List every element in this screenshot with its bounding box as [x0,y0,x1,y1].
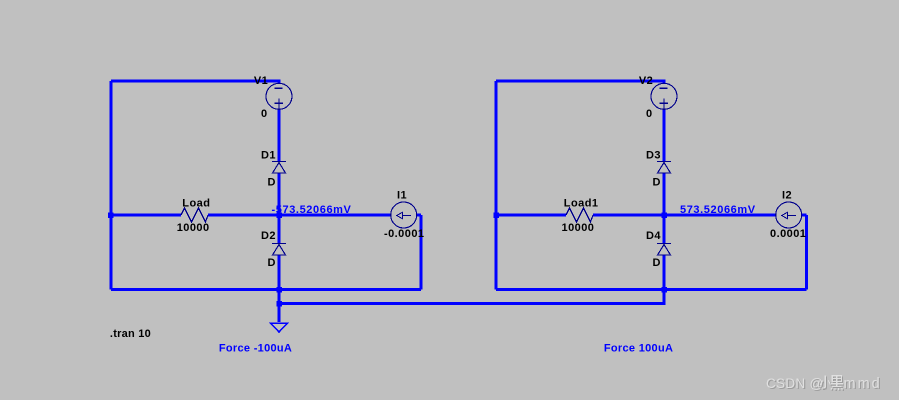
voltage source V2 [651,83,677,109]
svg-text:10000: 10000 [177,222,210,234]
wire interconnect bottom [279,290,664,304]
svg-text:D: D [653,257,661,269]
wire I1 right stub [417,214,421,217]
svg-text:V2: V2 [639,75,653,87]
svg-text:CSDN @: CSDN @ [766,376,824,391]
junction (111,215) [108,213,114,219]
wire D3 to main node [663,173,666,215]
svg-text:0: 0 [261,108,268,120]
wire right vertical (right circuit) [805,215,808,290]
voltage source V1 [266,83,292,109]
svg-text:D2: D2 [261,230,276,242]
wire left vertical (left circuit) [110,81,113,290]
svg-text:D4: D4 [646,230,661,242]
junction (664,215) [661,213,667,219]
svg-text:Load: Load [182,197,210,209]
wire node to D2 [278,215,281,244]
current source I1 [391,202,417,228]
svg-text:I2: I2 [782,189,792,201]
svg-text:0: 0 [646,108,653,120]
diode D1 [272,162,286,174]
wire D4 to bottom [663,255,666,290]
wire V2 bottom to D3 [663,109,666,161]
svg-text:Force 100uA: Force 100uA [604,342,673,354]
svg-text:D: D [653,177,661,189]
svg-text:D1: D1 [261,150,276,162]
svg-text:I1: I1 [397,189,407,201]
current source I2 [776,202,802,228]
svg-text:D: D [268,257,276,269]
svg-text:V1: V1 [254,75,268,87]
wire main horizontal left segment (right circuit) [496,214,566,217]
svg-text:-0.0001: -0.0001 [384,228,424,240]
svg-text:mmd: mmd [844,376,882,392]
svg-text:Load1: Load1 [564,197,599,209]
svg-text:D: D [268,177,276,189]
junction (279,303.5) [276,301,282,307]
wire main horizontal left segment [111,214,181,217]
svg-text:.tran 10: .tran 10 [110,328,151,340]
wire V1 bottom to D1 [278,109,281,161]
svg-text:Force -100uA: Force -100uA [219,342,292,354]
wire bottom horizontal (right circuit) [496,288,807,291]
wire I2 right stub [802,214,807,217]
wire D1 to main node [278,173,281,215]
svg-text:D3: D3 [646,150,661,162]
diode D2 [272,244,286,256]
wire ground stub [278,290,281,322]
diode D3 [657,162,671,174]
svg-text:0.0001: 0.0001 [770,228,806,240]
junction (279,289.5) [276,287,282,293]
resistor Load [181,208,208,222]
wire right vertical (left circuit) [420,215,423,290]
resistor Load1 [566,208,593,222]
wire D2 to bottom [278,255,281,290]
junction (664,289.5) [661,287,667,293]
wire left vertical (right circuit) [495,81,498,290]
wire node to D4 [663,215,666,244]
diode D4 [657,244,671,256]
wire top horizontal (left circuit) [111,81,279,84]
svg-text:573.52066mV: 573.52066mV [680,204,756,216]
wire node to I1 [208,214,391,217]
junction (279,215) [276,213,282,219]
wire node to I2 [593,214,776,217]
svg-text:10000: 10000 [562,222,595,234]
ground [271,323,288,332]
wire top horizontal (right circuit) [496,81,664,84]
svg-text:-573.52066mV: -573.52066mV [272,204,352,216]
junction (496,215) [493,213,499,219]
watermark CSDN [766,376,883,394]
wire bottom horizontal (left circuit) [111,288,421,291]
